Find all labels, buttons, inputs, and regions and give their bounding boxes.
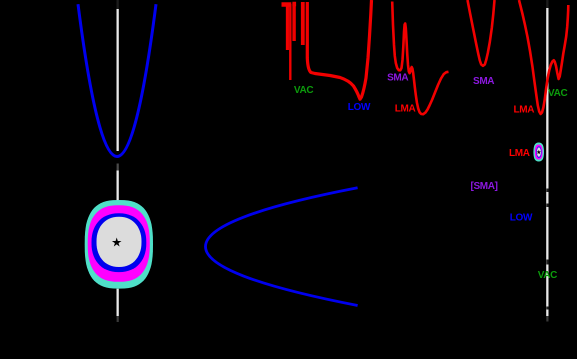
top-left blue parabola	[78, 4, 156, 156]
left vertical white line	[117, 0, 119, 322]
svg-text:VAC: VAC	[548, 88, 567, 99]
svg-text:LMA: LMA	[509, 148, 530, 159]
VAC top cap 1	[282, 2, 292, 7]
red curve panel 1: VAC spike cluster	[282, 0, 372, 99]
svg-text:SMA: SMA	[387, 73, 408, 84]
VAC spike 2	[292, 3, 295, 41]
red curve panel 3: SMA V	[468, 0, 495, 66]
VAC spike 3	[301, 2, 305, 45]
mini marker: magenta ring	[535, 145, 543, 160]
svg-text:LMA: LMA	[514, 105, 535, 116]
mini marker: cyan ring	[533, 143, 544, 162]
mini marker: star	[537, 150, 541, 154]
svg-text:VAC: VAC	[294, 85, 313, 96]
VAC spike 1	[286, 4, 289, 50]
middle blue parabola (opens right)	[206, 188, 358, 306]
red curve panel 2: SMA double dip + LMA dip	[392, 2, 448, 115]
svg-text:VAC: VAC	[538, 270, 557, 281]
mini marker: light center	[537, 147, 541, 156]
svg-text:[SMA]: [SMA]	[471, 181, 498, 192]
VAC spike 4 + plateau + LOW dip	[307, 0, 371, 99]
red curve panel 4: LMA dip + VAC dip near line	[519, 0, 568, 114]
blob: blue ring	[92, 213, 147, 272]
star	[112, 238, 122, 247]
svg-text:LOW: LOW	[348, 102, 371, 113]
blob: inner gray	[97, 217, 142, 267]
svg-text:LOW: LOW	[510, 213, 533, 224]
VAC top cap 2	[292, 2, 296, 7]
svg-text:LMA: LMA	[395, 104, 416, 115]
right vertical white line	[546, 0, 548, 322]
blob: magenta ring	[88, 205, 150, 281]
mini marker: blue ring	[536, 146, 541, 158]
svg-text:SMA: SMA	[473, 76, 494, 87]
VAC spike 1b deep	[289, 4, 291, 80]
blob: cyan outer ring	[85, 200, 153, 289]
